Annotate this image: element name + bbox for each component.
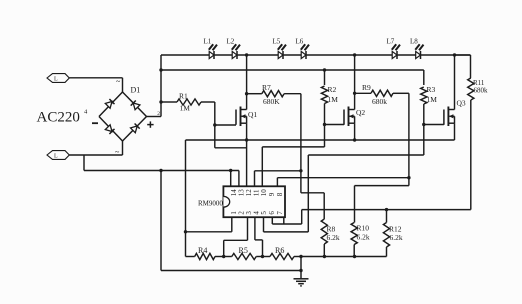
pin4 wire to R5/R6 junction (254, 217, 256, 240)
pin3 wire to R4/R5 junction (247, 217, 249, 240)
svg-text:Q3: Q3 (457, 99, 466, 108)
svg-text:Q1: Q1 (248, 110, 257, 119)
R7 tail vertical down (300, 94, 302, 193)
svg-text:L: L (54, 154, 58, 160)
svg-text:1M: 1M (180, 104, 191, 113)
svg-text:6.2k: 6.2k (390, 233, 403, 242)
bridge rectifier D1 (99, 92, 123, 117)
svg-text:R5: R5 (239, 246, 248, 255)
resistor R3 1M (423, 70, 425, 85)
transistor Q3 (443, 110, 445, 125)
svg-text:680k: 680k (474, 87, 489, 95)
left rail vertical (lower segment, AC net) (160, 171, 162, 271)
bottom bus (301, 256, 387, 258)
LED L1 (209, 51, 214, 58)
source rail y140 (186, 139, 455, 141)
svg-text:L5: L5 (273, 38, 281, 46)
pin1 wire (231, 217, 233, 232)
pin7 stub (283, 217, 285, 224)
svg-text:8: 8 (276, 192, 284, 196)
svg-text:~: ~ (115, 148, 120, 157)
resistor R1 1M (161, 101, 177, 103)
wire down to R10 top (354, 186, 356, 223)
Q1 source down to rail y140 and pin 12 (246, 123, 248, 186)
wire AC branch down from lower wire (83, 155, 85, 171)
wire lower connector to bridge bottom (69, 154, 122, 156)
IC U1 RM9000 (223, 186, 285, 217)
svg-text:5: 5 (260, 211, 268, 215)
resistor R6 (263, 256, 271, 258)
connector J2 (lower AC terminal) (47, 151, 69, 160)
svg-text:Q2: Q2 (356, 108, 365, 117)
LED L6 (301, 51, 306, 58)
svg-text:680k: 680k (372, 97, 387, 106)
resistor R5 (224, 256, 232, 258)
Q3 source down to rail y140 (454, 123, 456, 140)
svg-text:9: 9 (268, 192, 276, 196)
svg-text:L1: L1 (204, 38, 212, 46)
svg-text:R10: R10 (357, 224, 370, 233)
svg-text:1M: 1M (427, 95, 438, 104)
top LED rail (161, 54, 471, 56)
wire LED rail to R11 (455, 54, 471, 56)
resistor R7 680K (247, 93, 262, 95)
transistor Q1 (235, 110, 237, 125)
svg-text:R1: R1 (179, 92, 188, 101)
resistor R12 6.2k (386, 210, 388, 223)
wire pin8 to R9 tail junction (y177.7) (277, 177, 409, 179)
vertical x185 from y140 down to R4 (185, 140, 187, 257)
svg-text:7: 7 (276, 211, 284, 215)
Q3 drain up to LED rail (454, 55, 456, 110)
resistor R8 6.2k (321, 219, 327, 244)
svg-text:R7: R7 (262, 83, 271, 92)
pin5 wire right to riser (263, 217, 265, 232)
svg-text:L: L (54, 77, 58, 83)
R11 bottom lead down to wire y210 (470, 100, 472, 210)
svg-text:L7: L7 (387, 38, 395, 46)
svg-text:R6: R6 (275, 246, 284, 255)
svg-text:RM9000: RM9000 (198, 200, 223, 208)
wire G3: pin5 riser to R3 vertical (308, 154, 424, 156)
svg-text:10: 10 (260, 189, 268, 197)
wire R3 to Q3 gate (424, 124, 444, 126)
LED L8 (416, 51, 421, 58)
wire pin11 to R7 vertical (255, 170, 301, 172)
svg-text:~: ~ (116, 77, 121, 86)
svg-text:R2: R2 (328, 85, 337, 94)
svg-text:D1: D1 (131, 86, 141, 95)
svg-text:R9: R9 (362, 83, 371, 92)
wire bridge plus to left rail (147, 116, 162, 118)
resistor R4 (186, 256, 195, 258)
svg-text:L6: L6 (296, 38, 304, 46)
svg-text:1M: 1M (328, 95, 339, 104)
resistor R2 1M (323, 68, 326, 71)
LED L5 (278, 51, 283, 58)
wire Q1 gate down to pin 12 jog (214, 125, 216, 148)
transistor Q2 (343, 110, 345, 125)
svg-text:AC220: AC220 (37, 110, 80, 126)
resistor R9 680k (355, 92, 371, 94)
left rail vertical (upper segment, + net) (160, 55, 162, 117)
svg-text:L8: L8 (410, 38, 418, 46)
Q1 drain up to LED rail (246, 55, 248, 110)
resistor R10 6.2k (351, 223, 357, 245)
wire y170 to IC pins 14/13 (84, 170, 239, 172)
svg-text:6.2k: 6.2k (357, 232, 370, 241)
R9 tail vertical down to R10 feed (408, 93, 410, 185)
bus y210 (302, 209, 471, 211)
wire down to R8 top (323, 193, 325, 219)
ground symbol (300, 257, 302, 279)
wire R2 to Q2 gate (325, 124, 345, 126)
Q2 drain up to LED rail (354, 55, 356, 110)
Q2 source down to rail y140 (354, 123, 356, 140)
wire G2: pin10 to R2/Q2 gate jog (262, 146, 324, 148)
R3/Q3 gate down to wire G3 (423, 125, 425, 156)
second rail y70 (161, 69, 424, 71)
svg-text:L2: L2 (227, 38, 235, 46)
LED L2 (232, 51, 237, 58)
pin6 wire to y210 bus (271, 217, 273, 224)
connector J1 (upper AC terminal) (47, 74, 69, 83)
wire Q2 gate jog down to wire G2 (324, 125, 326, 147)
svg-text:680K: 680K (263, 97, 280, 106)
svg-text:6: 6 (268, 211, 276, 215)
wire upper connector to bridge top (69, 77, 122, 79)
wire R1 to Q1 gate (214, 102, 216, 125)
pin5 riser (307, 155, 309, 232)
svg-text:R3: R3 (427, 85, 436, 94)
svg-text:6.2k: 6.2k (327, 233, 340, 242)
resistor R11 680k (470, 55, 472, 78)
svg-text:R4: R4 (198, 246, 207, 255)
bottom wire to ground (161, 270, 301, 272)
LED L7 (392, 51, 397, 58)
